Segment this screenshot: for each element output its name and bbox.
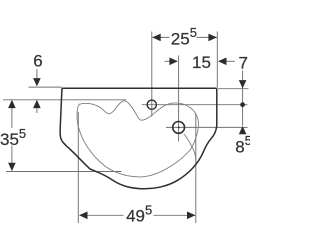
right reference line top edge level — [218, 88, 249, 90]
bottom reference line (y=171.5) — [6, 171, 122, 173]
extension of basin top edge for dim 6 — [29, 86, 63, 88]
right reference line hole1 level — [142, 104, 248, 106]
inner channel curve near right extension line — [184, 134, 196, 161]
dim 6 up arrow — [33, 100, 41, 108]
right reference line hole2 level — [166, 126, 248, 128]
svg-text:7: 7 — [238, 53, 247, 72]
dim 35.5 vertical line — [11, 107, 13, 128]
washbasin technical drawing — [0, 0, 250, 250]
arrows — [8, 34, 246, 220]
extension line 25.5 right — [216, 32, 218, 88]
dim 7 down arrow — [239, 80, 247, 88]
extension line 15 / hole2 vertical crosshair — [178, 56, 180, 142]
dim 15 left arrow — [169, 58, 178, 66]
svg-text:6: 6 — [33, 51, 42, 70]
dim line 25.5 — [153, 36, 170, 38]
dim 15 arrow tails — [165, 60, 171, 62]
dim 35.5 up arrow — [8, 100, 16, 108]
dim 7 / 8.5 vertical line — [242, 71, 244, 126]
dim 25.5 right arrow — [208, 34, 217, 42]
tap hole (small) — [147, 100, 156, 109]
extension line 25.5 left / hole1 vertical crosshair — [151, 32, 153, 117]
reference line left (y=99.5) — [3, 99, 126, 101]
dim 35.5 down arrow — [8, 163, 16, 171]
extension line 49.5 right — [195, 113, 197, 223]
dim 8.5 up arrow — [239, 126, 247, 134]
basin outer outline — [60, 88, 217, 189]
dim 49.5 right arrow — [187, 212, 196, 220]
svg-text:15: 15 — [192, 53, 211, 72]
diamond marker — [240, 102, 245, 107]
extension line 49.5 left — [77, 112, 79, 223]
dim 15 right arrow — [218, 58, 227, 66]
dim 25.5 left arrow — [152, 34, 161, 42]
dim 6 down arrow — [33, 78, 41, 86]
dim line 49.5 — [80, 214, 124, 216]
dim 6 vertical line — [36, 69, 38, 80]
hole2 (large with center dot) — [173, 122, 185, 134]
basin inner outline (wavy rim + bowl) — [77, 101, 198, 177]
dim 49.5 left arrow — [79, 212, 88, 220]
